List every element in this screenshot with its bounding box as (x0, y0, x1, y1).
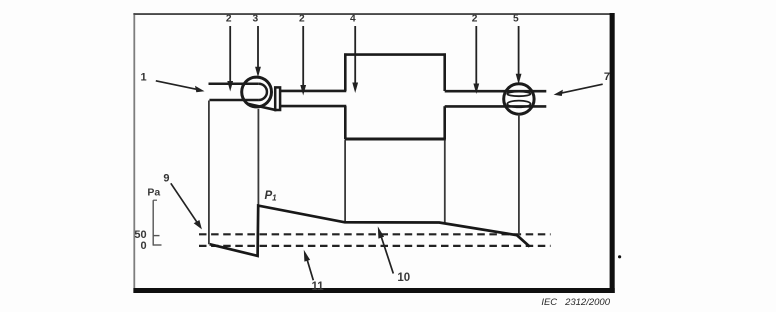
flow device upper nozzle (507, 92, 530, 97)
fan outlet duct top wall (280, 90, 346, 93)
frame top border (133, 13, 610, 15)
connector line chamber right station (444, 140, 446, 223)
arrow 10 pointing to pressure curve (378, 226, 394, 273)
svg-text:5: 5 (513, 14, 519, 25)
50 Pa dashed reference line (199, 233, 551, 235)
chamber 4 left edge upper (344, 53, 347, 91)
Pa axis 50 tick (153, 235, 159, 237)
svg-text:2: 2 (472, 14, 478, 25)
fan outlet flange (275, 87, 280, 110)
outlet duct bottom wall (445, 105, 547, 108)
arrow to measuring point 2 (fan outlet duct) (300, 26, 306, 96)
fan volute bottom (247, 104, 276, 111)
outlet duct top wall (445, 90, 547, 93)
frame left border (133, 13, 135, 293)
svg-text:0: 0 (140, 240, 146, 252)
arrow to fan 3 (255, 26, 261, 77)
svg-text:4: 4 (350, 14, 356, 25)
Pa axis top tick (153, 199, 157, 201)
frame bottom border (133, 288, 614, 293)
frame right border (610, 13, 615, 293)
chamber 4 left edge lower (344, 106, 347, 139)
flow device lower nozzle (507, 101, 530, 108)
svg-text:1: 1 (141, 72, 147, 84)
connector line fan station (257, 109, 259, 206)
svg-text:10: 10 (397, 272, 410, 284)
connector line flow device station (518, 114, 520, 235)
arrow 11 pointing to 0 Pa dashed line (304, 250, 314, 280)
chamber 4 top edge (344, 53, 446, 56)
inlet duct top wall (209, 82, 259, 85)
arrow to measuring point 2 (outlet duct) (473, 26, 479, 94)
Pa axis 0 tick (153, 244, 161, 246)
arrow 9 pointing to 50 Pa dashed line (171, 183, 202, 229)
chamber 4 bottom edge (345, 138, 446, 141)
inlet duct bottom wall (209, 99, 259, 102)
flow device 5 circle (504, 84, 534, 114)
Pa axis line (152, 200, 154, 245)
svg-text:IEC 2312/2000: IEC 2312/2000 (541, 297, 610, 308)
arrow to measuring point 2 (inlet duct) (227, 26, 233, 92)
svg-text:11: 11 (312, 281, 325, 293)
fan U3 scroll circle (242, 77, 272, 107)
static pressure curve 10 (210, 206, 530, 256)
fan inlet eye cap (259, 84, 267, 100)
svg-text:3: 3 (252, 14, 258, 25)
chamber 4 right edge upper (443, 53, 446, 91)
svg-text:9: 9 (163, 173, 169, 185)
connector line inlet station (208, 101, 210, 245)
arrow to device 5 (516, 26, 522, 84)
arrow 1 pointing to inlet opening (156, 81, 205, 92)
svg-text:2: 2 (299, 14, 305, 25)
arrow to chamber 4 (352, 26, 358, 93)
0 Pa dashed reference line (199, 245, 551, 247)
fan outlet duct bottom wall (280, 105, 346, 108)
svg-text:7: 7 (604, 71, 610, 83)
chamber 4 right edge lower (443, 106, 446, 139)
connector line chamber left station (344, 140, 346, 222)
arrow 7 pointing to outlet opening (554, 84, 603, 96)
svg-text:Pa: Pa (147, 187, 160, 199)
stray dot (618, 255, 621, 258)
svg-text:2: 2 (226, 14, 232, 25)
